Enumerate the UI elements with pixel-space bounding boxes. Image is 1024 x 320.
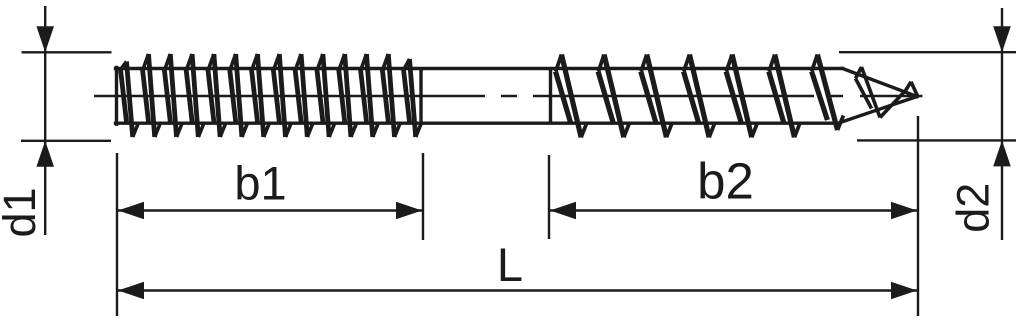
thread crests on tip taper [856,67,919,118]
bolt body outline: left end, core lines, thread end, shank junction, taper to point [116,68,918,125]
svg-text:d2: d2 [948,183,999,233]
svg-text:b2: b2 [697,153,754,210]
machine thread section b1 [121,54,422,137]
dimension L: dimension line, arrows, label [117,238,918,299]
svg-text:b1: b1 [234,157,286,210]
dimension b2: extension lines, dimension line, arrows, label [549,116,918,316]
svg-text:L: L [497,238,523,291]
svg-text:d1: d1 [0,187,45,237]
wood screw thread section b2 [556,55,844,138]
centerline of bolt axis [94,95,923,98]
dimension b1: extension lines, dimension line, arrows, label [117,153,423,316]
dimension d1: extension lines, dimension line, arrows, label [0,6,112,238]
dimension d2: extension lines, dimension line, arrows, label [839,8,1016,240]
